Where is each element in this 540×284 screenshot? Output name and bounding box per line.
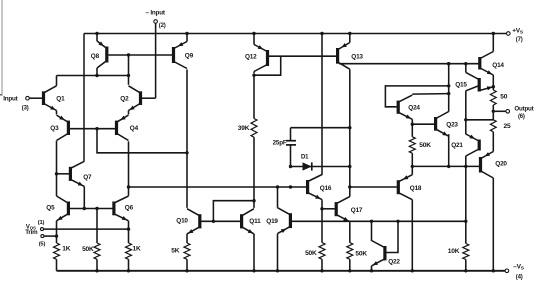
wire Q18 base: [350, 186, 397, 188]
svg-text:– Input: – Input: [146, 10, 166, 17]
node 50K bottom junction: [411, 165, 414, 168]
transistor Q1: [44, 76, 66, 115]
svg-text:(4): (4): [516, 274, 523, 280]
wire scan edge artifact: [1, 0, 3, 96]
wire Q5/Q6 base link: [70, 208, 113, 210]
resistor R9 50K (Q16): [305, 243, 325, 260]
wire bases to Q9 collector: [97, 129, 187, 153]
node Q12 collector junction: [252, 74, 255, 77]
node Q8/Q9 base junction: [127, 53, 130, 56]
node 50K tap junction: [95, 207, 98, 210]
node Q23 emitter junction: [447, 165, 450, 168]
wire Q11 base-collector jumper: [213, 201, 254, 222]
node Q14 base tap A: [447, 62, 450, 65]
node Q7 base / Q3 collector: [55, 172, 58, 175]
wire Q14 emitter to 50: [492, 85, 494, 91]
wire R3 to rail: [96, 259, 98, 271]
svg-text:Q17: Q17: [351, 207, 363, 214]
wire 50K to Q20 base rail: [411, 153, 413, 166]
wire R9 to rail: [321, 259, 323, 271]
resistor R3 50K: [82, 243, 100, 259]
wire net B to 10K: [465, 221, 467, 243]
svg-text:25: 25: [504, 123, 511, 130]
wire -Input to Q2 base: [142, 23, 156, 98]
svg-text:Q6: Q6: [125, 205, 134, 212]
svg-text:Input: Input: [3, 95, 18, 102]
wire Q17 emitter down: [349, 223, 351, 243]
transistor Q9: [174, 34, 194, 69]
node Q23 collector to Q14 base: [447, 62, 450, 65]
svg-text:(2): (2): [159, 23, 166, 29]
capacitor C1 25pF: [273, 128, 296, 167]
wire Q23 base node to 50K: [411, 124, 413, 137]
wire pin5 to Q5 emitter node: [44, 235, 57, 237]
wire Q4-Q6 collector column: [128, 141, 130, 195]
node cap / Q16 base: [289, 185, 292, 188]
wire base node to 50K: [96, 209, 98, 244]
wire pin1 to Q6 emitter node: [44, 228, 129, 230]
node cap tap on Q13 collector: [348, 126, 351, 129]
wire Q20 base line: [412, 165, 479, 167]
resistor R2 1K: [126, 243, 141, 259]
node Q3/Q4 base junction: [95, 127, 98, 130]
transistor Q23: [436, 112, 459, 137]
node output: [492, 110, 495, 113]
wire Q9 collector down to Q10: [186, 70, 188, 208]
wire Q12 diode loop: [254, 56, 281, 75]
terminal Output pin 6: [495, 105, 534, 120]
wire Q3 collector column: [56, 141, 58, 196]
transistor Q20: [481, 132, 508, 271]
svg-text:Q2: Q2: [120, 95, 129, 102]
svg-text:50K: 50K: [419, 142, 431, 149]
node Q7 emitter junction: [83, 207, 86, 210]
node Q14 base tap B: [464, 62, 467, 65]
svg-text:10K: 10K: [448, 248, 460, 255]
transistor Q11: [242, 209, 261, 271]
node Q24 base junction: [447, 84, 450, 87]
svg-text:(6): (6): [518, 114, 525, 120]
transistor Q17: [336, 187, 363, 223]
svg-text:Q13: Q13: [351, 53, 363, 60]
resistor R10 10K: [448, 244, 469, 260]
node R8 rail: [348, 269, 351, 272]
node cap bottom / D1 anode: [289, 165, 292, 168]
wire input-stage output to Q16 base: [129, 186, 308, 188]
resistor R12 50K (Q24): [409, 137, 431, 153]
wire cap to Q13 collector line: [291, 127, 350, 129]
svg-text:Q9: Q9: [185, 53, 194, 60]
svg-text:Q16: Q16: [320, 185, 332, 192]
wire +Vs top rail: [84, 33, 507, 35]
svg-text:Q15: Q15: [455, 81, 467, 88]
wire Q22 collector up: [371, 221, 373, 241]
transistor Q22: [372, 241, 401, 271]
diode D1: [291, 154, 350, 170]
svg-text:50K: 50K: [82, 246, 94, 253]
node Q9 emitter on rail: [185, 32, 188, 35]
node Q22 emitter rail: [370, 269, 373, 272]
node Q19 collector junction: [276, 185, 279, 188]
resistor R4 5K: [171, 243, 190, 259]
wire Q17 base: [322, 208, 335, 210]
wire Q23 emitter down: [448, 134, 450, 166]
wire Q12 collector to 39K: [253, 75, 255, 118]
svg-text:Q1: Q1: [56, 95, 65, 102]
wire Q24 collector link: [412, 93, 448, 96]
node Q15 emitter junction: [492, 85, 495, 88]
svg-text:Q5: Q5: [46, 205, 55, 212]
transistor Q12: [245, 34, 268, 74]
wire R8 to rail: [349, 259, 351, 271]
svg-text:Q22: Q22: [388, 259, 400, 266]
transistor Q21: [451, 134, 479, 221]
svg-text:Q18: Q18: [410, 185, 422, 192]
node 10K rail: [464, 269, 467, 272]
svg-text:Q23: Q23: [446, 122, 458, 129]
node R4 rail: [185, 269, 188, 272]
wire 10K to rail: [465, 260, 467, 271]
wire R2 to rail: [128, 259, 130, 271]
wire 50 to output node: [492, 105, 494, 120]
svg-text:50K: 50K: [305, 250, 317, 257]
node Q8 collector: [95, 74, 98, 77]
node Q22 base on net B: [396, 220, 399, 223]
node Q17 base tap: [320, 207, 323, 210]
svg-text:50K: 50K: [355, 250, 367, 257]
transistor Q10: [176, 209, 200, 243]
node input-stage output: [127, 185, 130, 188]
wire base junction to collectors node: [128, 55, 130, 85]
svg-text:Q24: Q24: [408, 104, 420, 111]
svg-text:Q12: Q12: [245, 53, 257, 60]
transistor Q16: [308, 175, 332, 201]
node Q11 diode jumper tap: [212, 220, 215, 223]
transistor Q24: [398, 95, 420, 124]
svg-text:5K: 5K: [171, 248, 179, 255]
wire R4 to rail: [186, 259, 188, 271]
wire Q13 collector A to Q14 base: [339, 63, 479, 65]
resistor R8 50K (Q17): [347, 243, 368, 260]
terminal +Vs pin 7: [507, 28, 524, 43]
wire Q13 collector B down: [349, 70, 351, 187]
terminal Vos Trim pin 5: [25, 229, 45, 247]
terminal Vos Trim pin 1: [26, 220, 45, 231]
svg-text:50: 50: [500, 94, 507, 101]
node Q18 collector rail: [411, 269, 414, 272]
node Q11 emitter rail: [252, 269, 255, 272]
svg-text:Output: Output: [514, 105, 533, 112]
svg-text:Q19: Q19: [266, 218, 278, 225]
node Q24 emitter / Q23 base: [411, 123, 414, 126]
transistor Q15: [455, 64, 493, 92]
svg-text:Q7: Q7: [83, 174, 92, 181]
node Q14 collector rail: [492, 32, 495, 35]
svg-text:1K: 1K: [133, 246, 141, 253]
transistor Q3: [50, 115, 68, 140]
node Q11 collector jumper: [252, 199, 255, 202]
wire Q8/Q9 base link: [108, 54, 172, 56]
wire Q3/Q4 base link: [70, 128, 115, 130]
node output tap junction: [464, 118, 467, 121]
node Q12 emitter rail: [252, 32, 255, 35]
node D1 cathode: [348, 165, 351, 168]
node Q19 emitter rail: [276, 269, 279, 272]
wire Q12/Q13 base link: [269, 55, 336, 57]
node Q20 collector rail: [492, 269, 495, 272]
resistor R6 50: [490, 90, 507, 105]
transistor Q13: [338, 34, 364, 70]
node R2 rail: [127, 269, 130, 272]
terminal -Input pin 2: [146, 10, 166, 30]
svg-text:Trim: Trim: [25, 229, 38, 236]
node Q21 collector crossing: [464, 165, 467, 168]
svg-text:(1): (1): [38, 220, 45, 226]
wire Q23 collector column: [448, 64, 450, 112]
transistor Q8: [91, 34, 107, 76]
svg-text:Q4: Q4: [130, 125, 139, 132]
wire Q11 collector to 39K: [253, 137, 255, 208]
svg-text:D1: D1: [301, 154, 309, 160]
node on Q9 collector line: [185, 151, 188, 154]
wire Q1/Q2 collectors to Q8 collector: [57, 75, 129, 77]
wire Q16 emitter down: [321, 201, 323, 243]
terminal -Vs pin 4: [505, 264, 525, 281]
svg-text:Q10: Q10: [176, 218, 188, 225]
svg-text:Q11: Q11: [249, 218, 261, 225]
node R9 rail: [320, 269, 323, 272]
wire Q23 base: [412, 123, 434, 125]
transistor Q4: [117, 115, 139, 140]
node Q22 collector on net B: [370, 220, 373, 223]
wire Q24 base loop: [385, 86, 448, 107]
svg-text:25pF: 25pF: [273, 140, 287, 147]
terminal +Input pin 3: [0, 95, 29, 112]
svg-text:Q20: Q20: [495, 160, 507, 167]
wire +Input to Q1 base: [29, 97, 42, 99]
node R3 rail: [95, 269, 98, 272]
wire net B (Q19 base to 10K): [292, 220, 466, 222]
transistor Q14: [480, 34, 505, 85]
node net B right end: [464, 220, 467, 223]
svg-text:39K: 39K: [238, 125, 250, 132]
svg-text:Q14: Q14: [492, 62, 504, 69]
wire Q5 emitter down: [56, 221, 58, 243]
wire Q22 base loop: [386, 221, 398, 252]
transistor Q18: [398, 166, 422, 270]
svg-text:(3): (3): [22, 105, 29, 111]
svg-text:(7): (7): [516, 37, 523, 43]
node pin1 tap: [127, 227, 130, 230]
node Q16 collector rail: [320, 32, 323, 35]
wire Q10/Q11 base link: [201, 220, 240, 222]
wire left rail (+Vs to Q7 collector): [83, 34, 85, 162]
wire Q16 collector to rail: [321, 34, 323, 175]
resistor R1 1K: [54, 243, 71, 259]
node Q13/Q17 collector junction: [348, 185, 351, 188]
transistor Q5: [46, 196, 68, 221]
transistor Q6: [114, 196, 134, 221]
node Q24 collector junction: [447, 92, 450, 95]
node Q1/Q2 collector junction: [127, 74, 130, 77]
wire Q7 base: [57, 173, 70, 175]
svg-text:(5): (5): [39, 242, 46, 248]
svg-text:Q21: Q21: [451, 142, 463, 149]
transistor Q19: [266, 187, 290, 271]
svg-text:Q3: Q3: [50, 125, 59, 132]
svg-text:1K: 1K: [62, 246, 70, 253]
wire Q15 base / Q21 emitter column: [465, 91, 467, 134]
wire output tap link: [466, 119, 494, 121]
node Q8 emitter on rail: [95, 32, 98, 35]
node Q13 emitter rail: [348, 32, 351, 35]
resistor R7 25: [490, 120, 511, 132]
wire R1 to rail: [56, 259, 58, 271]
transistor Q7: [70, 161, 92, 208]
wire Q6 emitter down: [128, 221, 130, 243]
node pin5 tap: [55, 234, 58, 237]
resistor R5 39K: [238, 119, 257, 138]
wire -Vs bottom rail: [57, 270, 506, 272]
svg-text:Q8: Q8: [91, 53, 100, 60]
transistor Q2: [120, 86, 140, 115]
